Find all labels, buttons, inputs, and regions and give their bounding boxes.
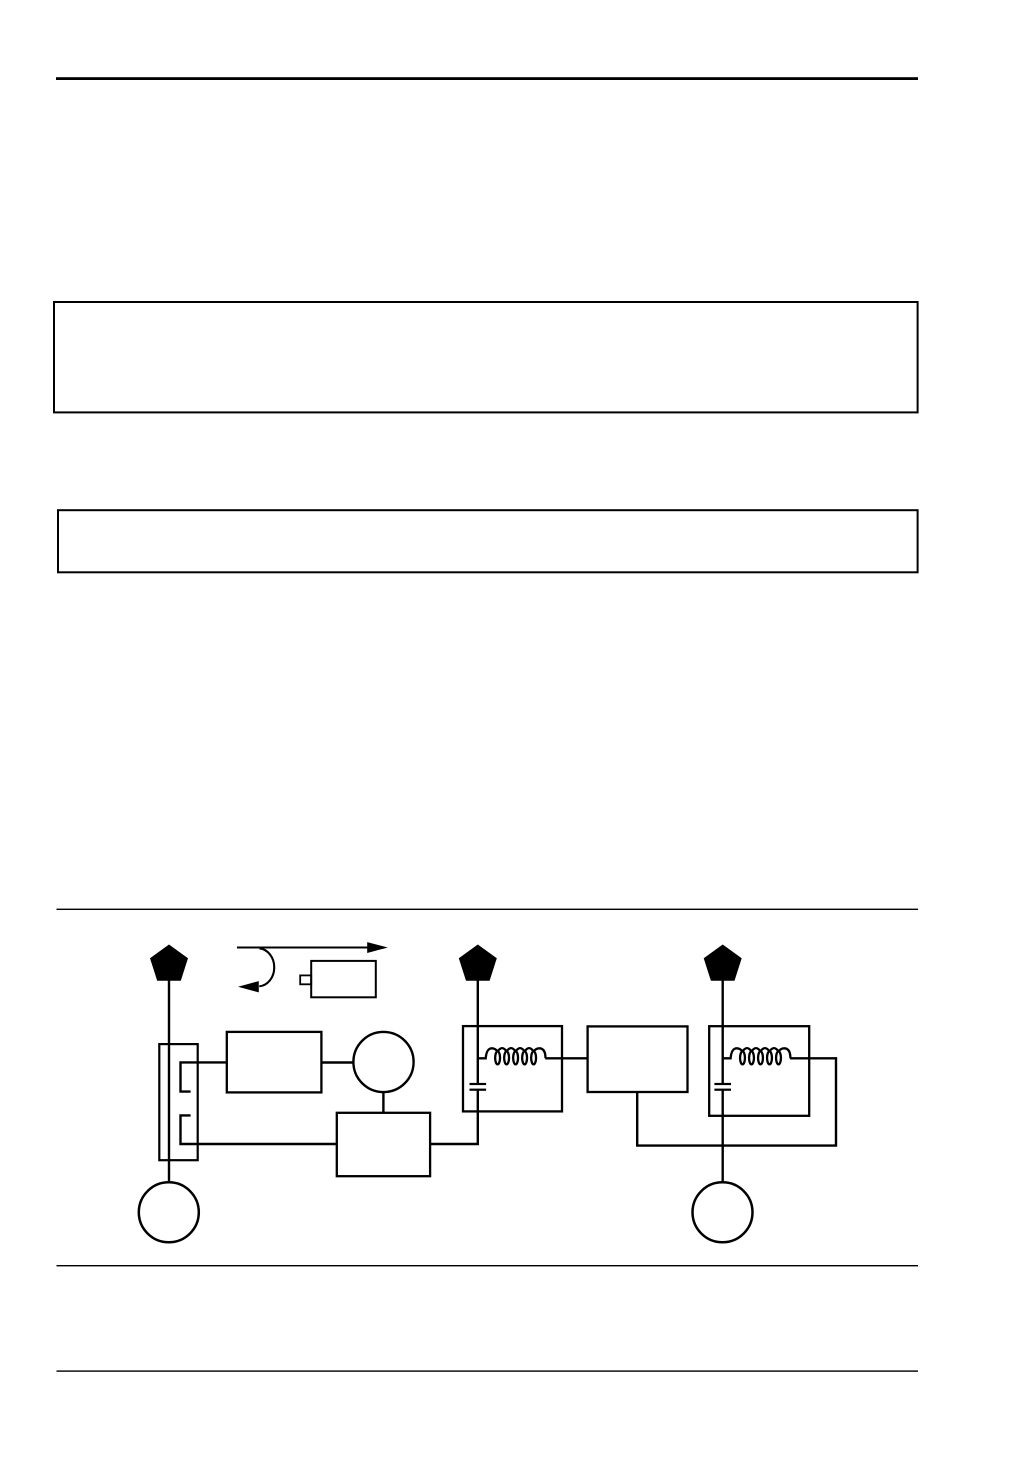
rotation arc arrowhead <box>238 981 259 992</box>
capacitor C2 top plate <box>714 1083 731 1085</box>
capacitor C1 top plate <box>470 1083 487 1085</box>
figure bottom rule <box>57 1265 919 1266</box>
note box 2 <box>58 510 918 572</box>
inductor L2 <box>723 1048 791 1064</box>
block U1 <box>227 1032 322 1093</box>
pin marker P3 <box>704 945 742 981</box>
resonator box X2 <box>709 1026 809 1116</box>
connector J1 contact 1 and wire to U1 <box>181 1062 228 1091</box>
rotation arc <box>259 948 274 986</box>
oscillator G1 <box>353 1032 413 1092</box>
resonator box X1 <box>463 1026 562 1111</box>
note box 1 <box>54 302 918 412</box>
wire P3 into tank 2 <box>722 981 724 1084</box>
wire L2 to feedback loop <box>790 1057 837 1059</box>
block U2 <box>337 1113 430 1176</box>
footer rule <box>57 1370 919 1371</box>
capacitor C2 bottom plate <box>714 1089 731 1091</box>
wire G1 to U2 <box>382 1092 384 1112</box>
connector J1 contact 2 and wire to U2 <box>181 1115 338 1144</box>
wire L1 to U3 <box>545 1057 588 1059</box>
motor M1 <box>139 1182 199 1242</box>
wire U3 feedback loop <box>637 1057 836 1145</box>
wire U1 to G1 <box>321 1061 354 1063</box>
wire P1 to M1 <box>168 981 170 1183</box>
pin marker P2 <box>459 945 497 981</box>
inductor L1 <box>478 1048 546 1064</box>
trimmer block icon <box>311 961 376 997</box>
rotation arrow head <box>367 942 388 953</box>
rotation arrow shaft <box>237 946 370 948</box>
motor M2 <box>693 1182 753 1242</box>
trimmer block tab <box>300 975 311 984</box>
wire U2 to capacitor C1 node <box>430 1090 478 1145</box>
capacitor C1 bottom plate <box>470 1089 487 1091</box>
header rule <box>56 77 918 80</box>
wire C2 to M2 <box>722 1091 724 1183</box>
figure top rule <box>57 909 919 910</box>
block U3 <box>588 1026 688 1092</box>
connector J1 body <box>159 1044 197 1160</box>
pin marker P1 <box>150 945 188 981</box>
wire P2 into tank 1 <box>477 981 479 1084</box>
